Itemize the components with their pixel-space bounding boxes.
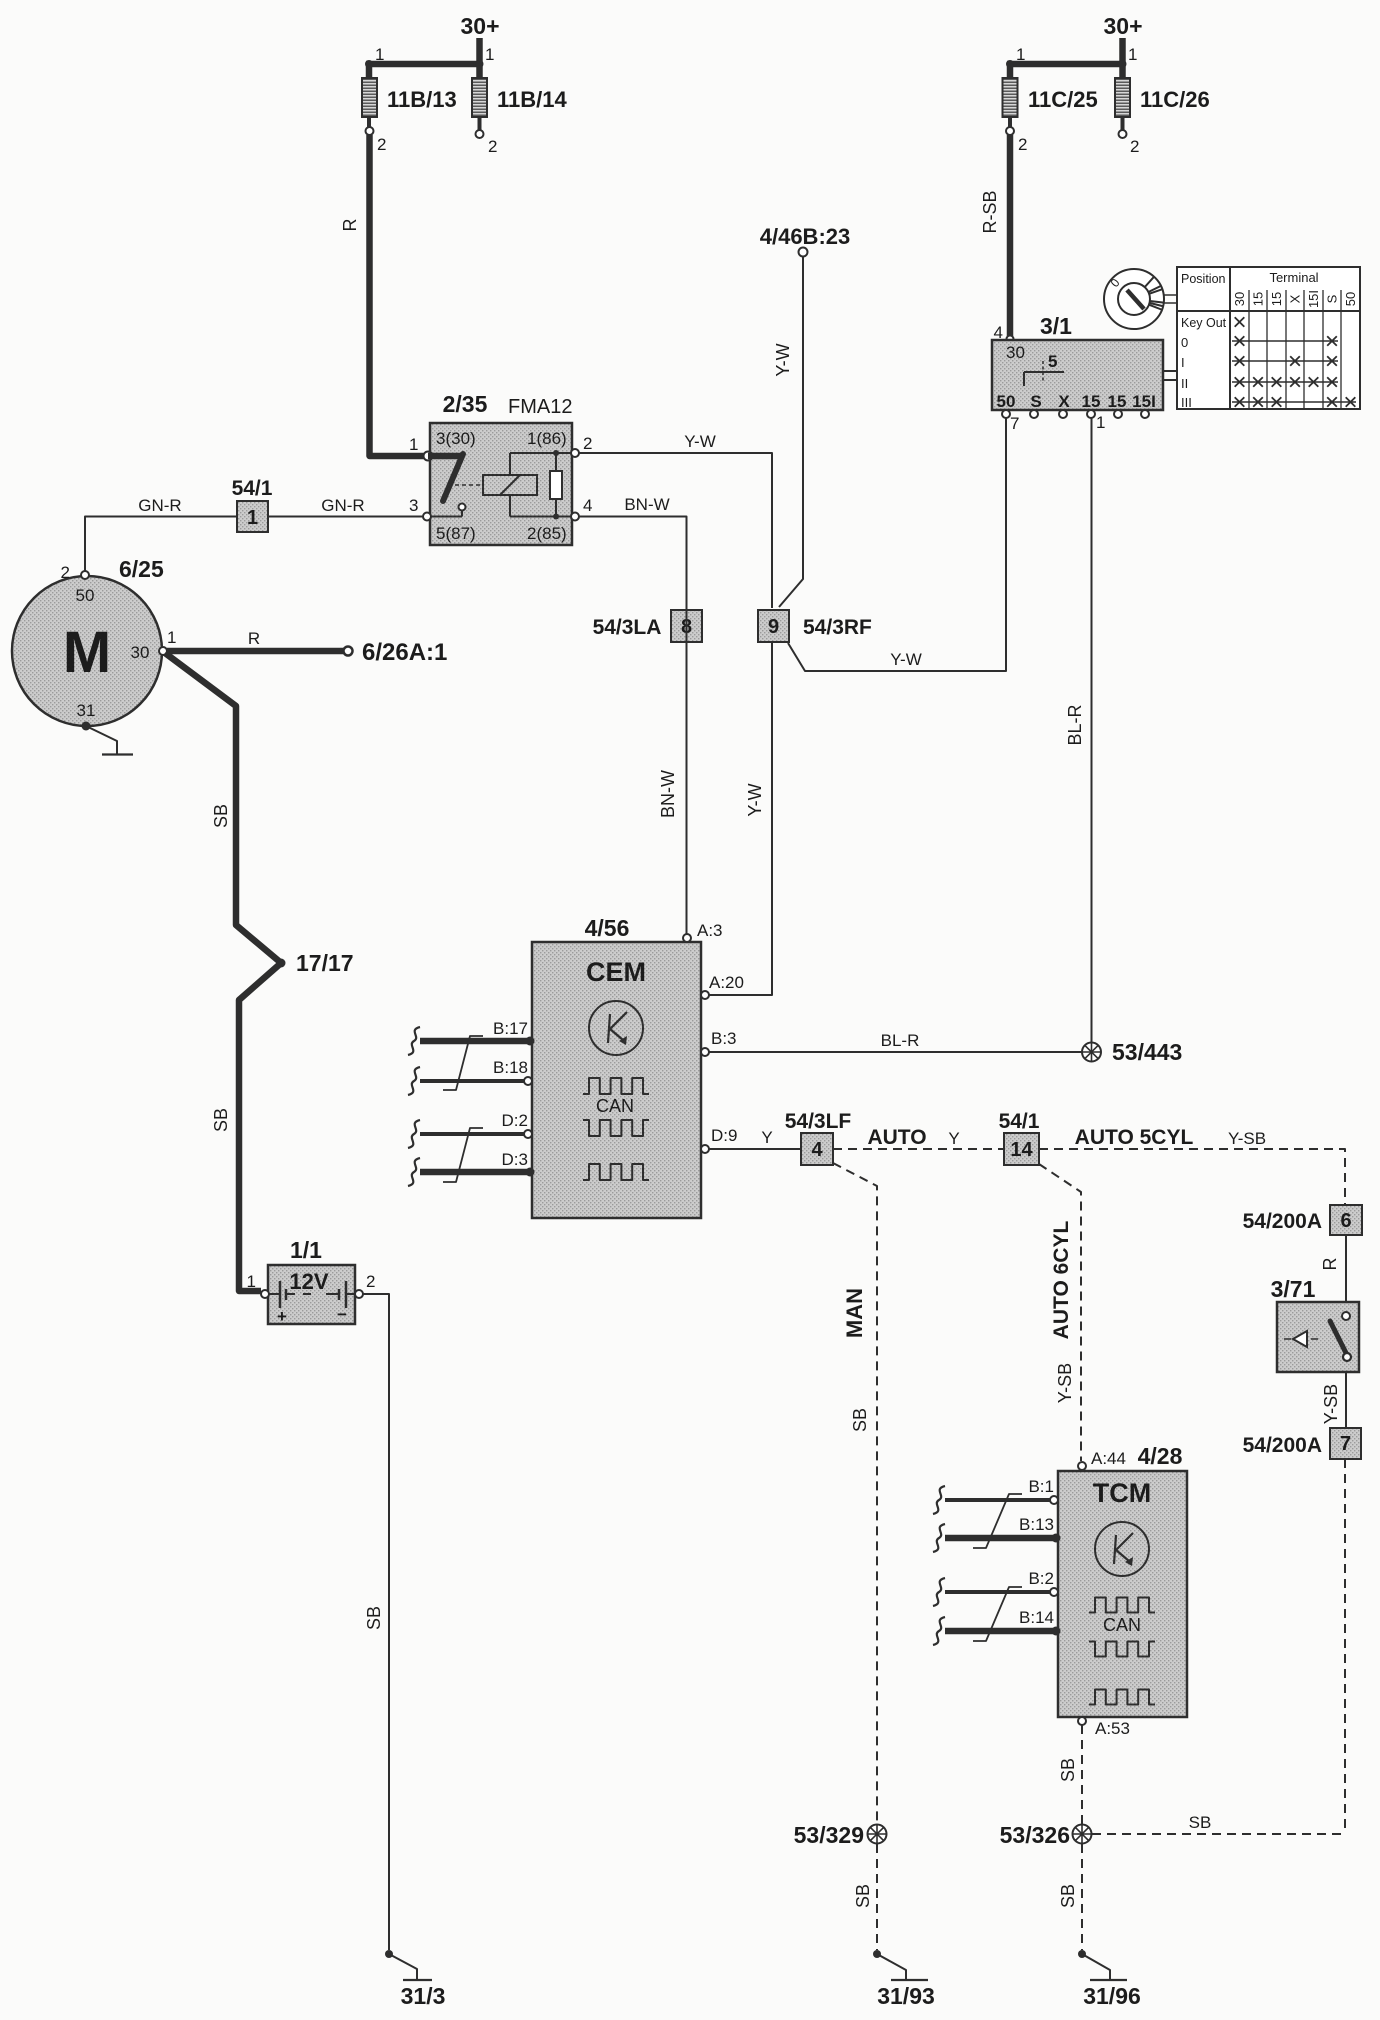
svg-text:R-SB: R-SB xyxy=(980,190,1000,233)
svg-text:30: 30 xyxy=(131,643,150,662)
svg-text:3/1: 3/1 xyxy=(1040,313,1072,339)
svg-text:30+: 30+ xyxy=(1103,13,1142,39)
svg-text:54/1: 54/1 xyxy=(232,477,273,500)
svg-text:3: 3 xyxy=(409,496,418,515)
svg-text:54/1: 54/1 xyxy=(999,1110,1040,1133)
svg-text:MAN: MAN xyxy=(842,1288,867,1338)
svg-text:S: S xyxy=(1325,294,1340,303)
svg-text:BN-W: BN-W xyxy=(624,495,669,514)
svg-text:30+: 30+ xyxy=(460,13,499,39)
svg-text:2: 2 xyxy=(366,1272,375,1291)
svg-text:R: R xyxy=(1320,1258,1340,1271)
svg-text:B:2: B:2 xyxy=(1028,1569,1054,1588)
svg-text:11B/14: 11B/14 xyxy=(497,87,567,112)
svg-text:I: I xyxy=(1181,355,1185,370)
svg-text:2: 2 xyxy=(1018,135,1027,154)
svg-text:2/35: 2/35 xyxy=(443,391,488,417)
svg-text:TCM: TCM xyxy=(1093,1478,1151,1508)
svg-text:50: 50 xyxy=(76,586,95,605)
svg-text:Terminal: Terminal xyxy=(1269,270,1318,285)
svg-text:4/46B:23: 4/46B:23 xyxy=(760,224,851,249)
svg-text:M: M xyxy=(63,620,111,685)
svg-text:4/28: 4/28 xyxy=(1138,1443,1183,1469)
svg-text:1: 1 xyxy=(409,435,418,454)
svg-text:50: 50 xyxy=(1343,292,1358,306)
svg-text:Y-W: Y-W xyxy=(773,343,793,376)
svg-text:15I: 15I xyxy=(1132,392,1156,411)
svg-text:15: 15 xyxy=(1269,292,1284,306)
svg-text:1: 1 xyxy=(1016,45,1025,64)
svg-text:2(85): 2(85) xyxy=(527,524,567,543)
svg-text:Y-W: Y-W xyxy=(745,783,765,816)
svg-text:SB: SB xyxy=(853,1884,873,1908)
svg-text:15: 15 xyxy=(1108,392,1127,411)
svg-text:B:3: B:3 xyxy=(711,1029,737,1048)
svg-text:4: 4 xyxy=(583,496,592,515)
svg-text:1(86): 1(86) xyxy=(527,429,567,448)
svg-text:B:13: B:13 xyxy=(1019,1515,1054,1534)
svg-text:3(30): 3(30) xyxy=(436,429,476,448)
svg-text:54/3LF: 54/3LF xyxy=(785,1110,852,1133)
svg-text:A:20: A:20 xyxy=(709,973,744,992)
svg-text:31/93: 31/93 xyxy=(877,1983,935,2009)
svg-text:BN-W: BN-W xyxy=(658,770,678,818)
svg-text:1/1: 1/1 xyxy=(290,1237,322,1263)
svg-text:30: 30 xyxy=(1232,292,1247,306)
svg-text:AUTO 5CYL: AUTO 5CYL xyxy=(1075,1126,1194,1149)
svg-text:6/25: 6/25 xyxy=(119,556,164,582)
svg-text:54/200A: 54/200A xyxy=(1243,1210,1322,1233)
svg-text:Y-W: Y-W xyxy=(684,432,716,451)
svg-text:Key Out: Key Out xyxy=(1181,316,1227,330)
svg-text:BL-R: BL-R xyxy=(1065,704,1085,745)
svg-text:2: 2 xyxy=(1130,137,1139,156)
svg-text:3/71: 3/71 xyxy=(1271,1276,1316,1302)
svg-text:9: 9 xyxy=(768,616,779,638)
svg-text:11B/13: 11B/13 xyxy=(387,87,457,112)
svg-text:53/326: 53/326 xyxy=(1000,1822,1070,1848)
svg-text:A:53: A:53 xyxy=(1095,1719,1130,1738)
svg-text:6: 6 xyxy=(1340,1210,1351,1232)
svg-text:CEM: CEM xyxy=(586,957,646,987)
svg-text:B:18: B:18 xyxy=(493,1058,528,1077)
svg-text:B:14: B:14 xyxy=(1019,1608,1054,1627)
svg-text:Y: Y xyxy=(948,1129,959,1148)
svg-text:Y-SB: Y-SB xyxy=(1055,1363,1075,1403)
svg-text:54/3RF: 54/3RF xyxy=(803,616,872,639)
svg-text:12V: 12V xyxy=(289,1269,328,1294)
svg-text:53/443: 53/443 xyxy=(1112,1039,1182,1065)
svg-text:SB: SB xyxy=(850,1408,870,1432)
svg-text:0: 0 xyxy=(1181,335,1188,350)
svg-text:A:44: A:44 xyxy=(1091,1449,1126,1468)
svg-text:53/329: 53/329 xyxy=(794,1822,864,1848)
svg-text:SB: SB xyxy=(364,1606,384,1630)
svg-text:5(87): 5(87) xyxy=(436,524,476,543)
svg-text:A:3: A:3 xyxy=(697,921,723,940)
svg-text:1: 1 xyxy=(167,628,176,647)
svg-text:X: X xyxy=(1288,294,1303,303)
svg-text:SB: SB xyxy=(1058,1884,1078,1908)
svg-text:GN-R: GN-R xyxy=(321,496,364,515)
svg-text:CAN: CAN xyxy=(596,1096,634,1116)
svg-text:D:3: D:3 xyxy=(502,1150,528,1169)
svg-text:2: 2 xyxy=(377,135,386,154)
svg-text:+: + xyxy=(277,1307,287,1326)
svg-text:6/26A:1: 6/26A:1 xyxy=(362,639,447,666)
svg-text:4/56: 4/56 xyxy=(585,915,630,941)
svg-text:7: 7 xyxy=(1010,414,1019,433)
svg-text:14: 14 xyxy=(1010,1139,1033,1161)
svg-text:SB: SB xyxy=(1058,1758,1078,1782)
svg-text:III: III xyxy=(1181,395,1192,410)
svg-text:SB: SB xyxy=(1189,1813,1212,1832)
svg-text:Y: Y xyxy=(761,1128,772,1147)
svg-text:Y-SB: Y-SB xyxy=(1228,1129,1266,1148)
svg-text:1: 1 xyxy=(247,507,258,529)
svg-text:31/96: 31/96 xyxy=(1083,1983,1141,2009)
svg-text:BL-R: BL-R xyxy=(881,1031,920,1050)
svg-text:15I: 15I xyxy=(1306,290,1321,308)
svg-text:1: 1 xyxy=(485,45,494,64)
svg-text:11C/25: 11C/25 xyxy=(1028,87,1098,112)
svg-text:II: II xyxy=(1181,376,1188,391)
svg-text:15: 15 xyxy=(1251,292,1266,306)
svg-text:Y-W: Y-W xyxy=(890,650,922,669)
svg-text:CAN: CAN xyxy=(1103,1615,1141,1635)
svg-text:AUTO 6CYL: AUTO 6CYL xyxy=(1050,1221,1073,1340)
svg-text:54/3LA: 54/3LA xyxy=(593,616,662,639)
svg-text:1: 1 xyxy=(1128,45,1137,64)
svg-text:R: R xyxy=(248,629,260,648)
svg-text:1: 1 xyxy=(1096,413,1105,432)
svg-text:SB: SB xyxy=(211,804,231,828)
svg-text:Y-SB: Y-SB xyxy=(1321,1384,1341,1424)
svg-text:11C/26: 11C/26 xyxy=(1140,87,1210,112)
svg-text:1: 1 xyxy=(375,45,384,64)
svg-text:B:1: B:1 xyxy=(1028,1477,1054,1496)
svg-text:15: 15 xyxy=(1082,392,1101,411)
svg-text:−: − xyxy=(337,1305,347,1324)
svg-text:R: R xyxy=(340,219,360,232)
svg-text:FMA12: FMA12 xyxy=(508,396,572,418)
svg-text:50: 50 xyxy=(997,392,1016,411)
svg-text:D:2: D:2 xyxy=(502,1111,528,1130)
svg-text:D:9: D:9 xyxy=(711,1126,737,1145)
svg-text:17/17: 17/17 xyxy=(296,950,354,976)
svg-text:31: 31 xyxy=(77,701,96,720)
svg-text:31/3: 31/3 xyxy=(401,1983,446,2009)
svg-text:B:17: B:17 xyxy=(493,1019,528,1038)
svg-text:5: 5 xyxy=(1048,352,1057,371)
svg-text:AUTO: AUTO xyxy=(867,1126,926,1149)
svg-text:30: 30 xyxy=(1006,343,1025,362)
svg-text:2: 2 xyxy=(583,434,592,453)
svg-text:GN-R: GN-R xyxy=(138,496,181,515)
svg-text:7: 7 xyxy=(1340,1433,1351,1455)
svg-text:4: 4 xyxy=(811,1139,823,1161)
svg-text:SB: SB xyxy=(211,1108,231,1132)
svg-text:S: S xyxy=(1030,392,1041,411)
svg-text:2: 2 xyxy=(488,137,497,156)
svg-text:1: 1 xyxy=(247,1272,256,1291)
svg-text:Position: Position xyxy=(1181,272,1226,286)
svg-text:2: 2 xyxy=(61,563,70,582)
svg-text:X: X xyxy=(1058,392,1070,411)
svg-text:54/200A: 54/200A xyxy=(1243,1434,1322,1457)
